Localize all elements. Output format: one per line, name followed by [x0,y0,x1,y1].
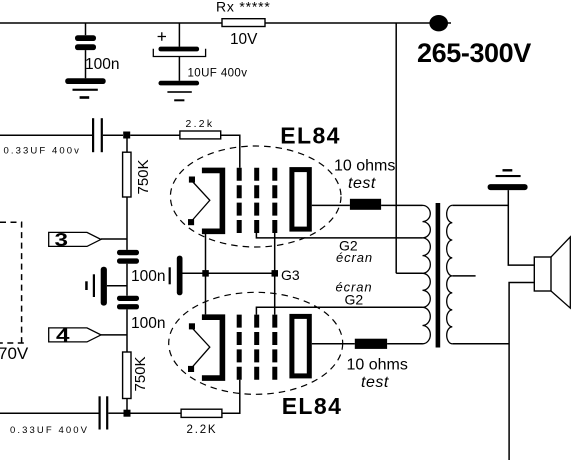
svg-text:0.33UF 400v: 0.33UF 400v [4,146,82,157]
wire node B to R 2.2K lower [131,412,182,414]
svg-text:test: test [348,175,376,192]
transformer T1 core [436,203,441,348]
wire top B+ rail left [0,22,222,24]
wire secondary bottom [452,343,509,345]
wire 750K to node 3 [126,197,128,250]
node 4 input flag [49,325,101,345]
svg-text:10V: 10V [230,31,258,48]
wire 750K lower to node B [126,399,128,411]
resistor R4 2.2K lower [181,409,222,417]
svg-text:100n: 100n [131,268,165,285]
wire U1 anode to R5 [312,204,350,206]
wire U2 G3 rise [274,273,276,314]
ground C1 [65,78,106,98]
tube U2 EL84 lower envelope [169,292,343,394]
svg-text:2.2k: 2.2k [186,119,215,130]
ground C2 [159,81,200,102]
tube U1 heater [188,177,210,226]
node B junction dot [124,410,131,417]
tube U2 heater [188,323,210,372]
svg-text:10 ohms: 10 ohms [347,357,408,374]
wire R 2.2K to G1 lower [222,380,240,413]
resistor R5 10 ohms upper [350,199,381,210]
svg-text:EL84: EL84 [280,123,341,149]
transformer T1 secondary winding [447,205,453,343]
transformer T1 primary winding [423,205,431,343]
wire U2 cathode rise [205,273,207,314]
svg-text:10 ohms: 10 ohms [334,158,395,175]
node K junction dot [202,270,209,277]
wire ground tap mid [107,285,127,287]
wire G3 rail [183,272,275,274]
dashed phase splitter box [0,222,24,343]
wire secondary mid tap stub [452,275,475,277]
svg-text:3: 3 [55,230,69,250]
wire 100n C1 bottom lead [85,50,87,78]
resistor R2 750K upper [123,152,131,197]
ground speaker top inverted [488,169,528,190]
capacitor C2 10UF plates [153,47,205,57]
tube U2 cathode [202,317,223,378]
svg-text:10UF 400v: 10UF 400v [188,68,248,80]
node G3 junction dot [272,270,279,277]
svg-text:écran: écran [336,250,373,265]
wire U1 G3 drop [274,233,276,273]
tube U2 grid G1 [237,315,242,380]
ground mid-left [85,267,107,306]
wire node A to R 2.2k [130,134,180,136]
wire node 4 to rail [101,334,127,336]
wire 100n C1 top lead [85,23,87,35]
wire top B+ rail right [265,22,451,24]
resistor R3 750K lower [123,352,131,399]
wire primary center tap [396,272,422,274]
wire U2 G2 to transformer [256,307,422,314]
resistor Rx [222,19,265,27]
wire R5 to transformer top [381,204,422,206]
capacitor C1 100n [75,35,96,50]
wire cap to node A [103,134,123,136]
ground G3 sideways [169,256,183,296]
tube U2 grid G2 [254,315,259,380]
svg-text:70V: 70V [0,344,29,363]
wire node A to 750K [126,139,128,153]
wire C4 to node 4 [126,309,128,352]
wire node 3 to rail [101,238,127,240]
svg-text:G3: G3 [281,267,300,283]
wire between C3 C4 [126,264,128,296]
wire ground to speaker top [508,190,534,265]
node 3 input flag [49,230,101,250]
tube U1 cathode [202,170,223,231]
svg-text:test: test [361,374,389,391]
node A junction dot [123,132,130,139]
svg-text:100n: 100n [131,315,165,332]
svg-text:265-300V: 265-300V [417,38,531,68]
svg-text:750K: 750K [132,356,149,391]
capacitor C6 0.33UF lower [99,396,109,429]
tube U1 grid G1 [237,168,242,233]
wire U1 cathode drop [205,234,207,273]
speaker LS1 [534,237,570,308]
wire B+ vertical feed [395,23,397,273]
svg-text:750K: 750K [135,159,152,194]
node B+ terminal dot [429,15,448,31]
wire R 2.2k to G1 upper [221,135,240,168]
wire mid-left rail [0,134,92,136]
tube U1 grid G2 [254,168,259,233]
svg-text:EL84: EL84 [282,393,343,419]
tube U1 EL84 upper envelope [170,146,341,247]
svg-text:100n: 100n [85,56,119,73]
capacitor C3 100n mid upper [117,250,139,264]
wire U2 anode to R6 [312,343,355,345]
tube U1 anode [292,170,309,230]
svg-text:4: 4 [56,325,70,345]
svg-text:2.2K: 2.2K [187,424,218,436]
svg-text:G2: G2 [345,292,364,308]
capacitor C2 10UF polarity plus [158,32,166,40]
capacitor C4 100n mid lower [117,296,139,310]
svg-text:0.33UF 400V: 0.33UF 400V [10,425,89,436]
capacitor C5 0.33UF upper [92,118,103,152]
wire cap to node B [108,412,123,414]
svg-text:Rx *****: Rx ***** [216,0,271,15]
wire U1 G2 to transformer [256,233,422,238]
tube U2 grid G3 [272,315,277,380]
tube U2 anode [292,316,309,376]
wire R6 to transformer bottom [387,343,422,345]
wire speaker return [509,283,534,460]
wire 10UF top lead [178,23,180,47]
wire bottom rail left [0,412,99,414]
wire 10UF bottom lead [178,57,180,81]
resistor R6 10 ohms lower [355,339,387,349]
tube U1 grid G3 [272,168,277,233]
wire secondary top [452,204,508,206]
resistor R1 2.2k upper [180,131,221,139]
